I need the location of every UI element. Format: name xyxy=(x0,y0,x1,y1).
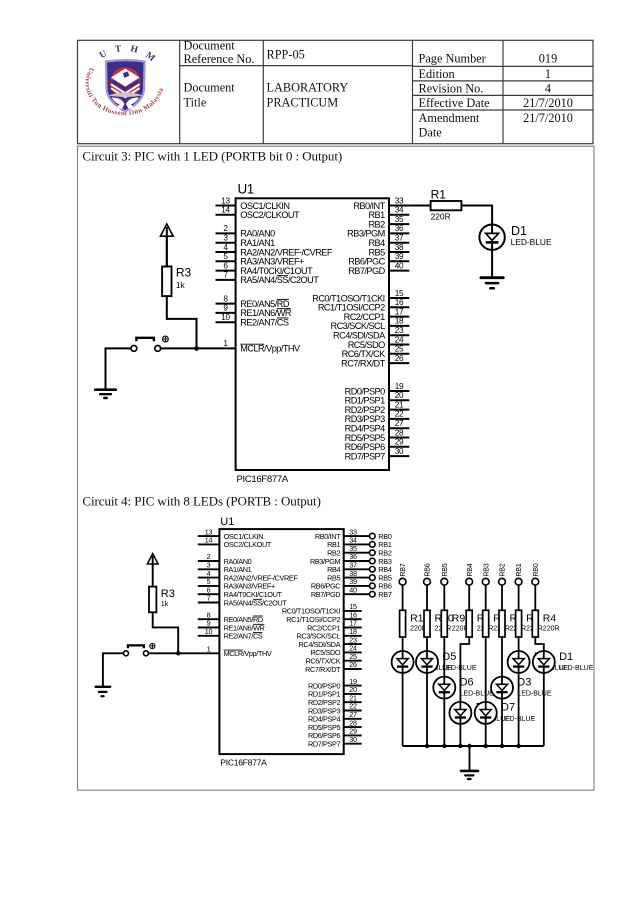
svg-text:RB0: RB0 xyxy=(531,563,540,576)
svg-text:40: 40 xyxy=(349,585,357,594)
wire R3 to MCLR node (circuit 4) xyxy=(153,612,179,653)
wire R10 to LED D5 xyxy=(426,637,428,651)
LED D6 (circuit 4) xyxy=(433,677,455,699)
wire RB7 terminal to resistor R11 xyxy=(402,585,404,610)
pin 22 RD3/PSP3 (U1 c3 right) xyxy=(345,410,410,425)
pin 26 RC7/RX/DT (U1 c4 right) xyxy=(305,660,362,674)
junction node on MCLR net (circuit 4) xyxy=(176,651,180,655)
header table frame xyxy=(78,40,594,143)
pin 10 RE2/AN7/CS (U1 c4 left) xyxy=(198,627,263,641)
pin 24 RC5/SDO (U1 c4 right) xyxy=(310,644,361,658)
svg-text:30: 30 xyxy=(349,735,357,744)
pin 20 RD1/PSP1 (U1 c3 right) xyxy=(345,391,410,406)
svg-text:R9: R9 xyxy=(452,612,466,624)
terminal RB6 (circuit 4 LED array) xyxy=(423,563,432,585)
svg-text:35: 35 xyxy=(395,215,404,224)
resistor R10 (circuit 4) xyxy=(424,610,430,637)
pin 30 RD7/PSP7 (U1 c4 right) xyxy=(308,735,362,749)
resistor R3 (circuit 4) xyxy=(149,587,156,613)
wire RB1 terminal to resistor R5 xyxy=(518,585,520,610)
wire R11 to LED D4 xyxy=(402,637,404,651)
wire VCC to resistor R3 (circuit 4) xyxy=(152,564,154,587)
terminal RB7 (circuit 4 LED array) xyxy=(398,563,407,585)
svg-text:Document: Document xyxy=(184,81,236,95)
UTHM logo xyxy=(83,44,165,117)
wire RB3 terminal to resistor R7 xyxy=(485,585,487,610)
svg-text:21: 21 xyxy=(395,400,404,409)
ground symbol (circuit 4 left) xyxy=(96,687,111,696)
pin 19 RD0/PSP0 (U1 c3 right) xyxy=(345,382,410,397)
wire LED D7 to ground rail xyxy=(485,724,487,746)
svg-text:1k: 1k xyxy=(176,280,186,290)
pin 27 RD4/PSP4 (U1 c4 right) xyxy=(308,710,362,724)
svg-text:RB1: RB1 xyxy=(514,563,523,576)
pin 24 RC5/SDO (U1 c3 right) xyxy=(348,335,410,350)
power VCC arrow (circuit 4) xyxy=(147,554,158,564)
svg-text:21/7/2010: 21/7/2010 xyxy=(523,96,573,110)
header table text xyxy=(184,38,573,139)
svg-text:RPP-05: RPP-05 xyxy=(267,48,305,62)
svg-text:RD7/PSP7: RD7/PSP7 xyxy=(308,740,341,749)
svg-text:019: 019 xyxy=(539,52,557,66)
wire RB0 terminal to resistor R4 xyxy=(534,585,536,610)
svg-text:R3: R3 xyxy=(176,266,192,280)
svg-text:PIC16F877A: PIC16F877A xyxy=(220,758,267,768)
svg-text:26: 26 xyxy=(395,354,404,363)
svg-text:4: 4 xyxy=(545,82,551,96)
pin 37 RB4 (U1 c3 right) xyxy=(368,234,409,249)
svg-text:19: 19 xyxy=(395,382,404,391)
IC U1 PIC16F877A body (circuit 4) xyxy=(219,529,343,754)
terminal RB4 (circuit 4 LED array) xyxy=(465,563,474,585)
svg-text:RB5: RB5 xyxy=(440,563,449,576)
wire R6 to LED D3 xyxy=(501,637,503,677)
pin 26 RC7/RX/DT (U1 c3 right) xyxy=(341,354,409,369)
pin 28 RD5/PSP5 (U1 c3 right) xyxy=(345,428,410,443)
pin 36 RB3/PGM (U1 c3 right) xyxy=(347,224,409,239)
LED D3 (circuit 4) xyxy=(491,677,513,699)
junction node on ground rail x=519 xyxy=(516,744,520,748)
wire R3 to MCLR node (circuit 3) xyxy=(167,296,197,348)
svg-text:LED-BLUE: LED-BLUE xyxy=(517,691,552,698)
LED D7 (circuit 4) xyxy=(475,702,497,724)
svg-text:RA5/AN4/SS/C2OUT: RA5/AN4/SS/C2OUT xyxy=(224,598,288,607)
resistor R8 (circuit 4) xyxy=(466,610,472,637)
svg-text:MCLR/Vpp/THV: MCLR/Vpp/THV xyxy=(240,344,301,354)
svg-text:39: 39 xyxy=(395,252,404,261)
svg-text:8: 8 xyxy=(223,294,228,303)
wire button to MCLR pin 1 (circuit 3) xyxy=(161,347,236,349)
pin 6 RA4/T0CKI/C1OUT (U1 c4 left) xyxy=(198,585,283,599)
wire R4 to LED D1 xyxy=(535,637,544,651)
svg-text:Amendment: Amendment xyxy=(419,111,480,125)
wire R8 to LED D8 xyxy=(460,637,469,702)
pin 8 RE0/AN5/RD (U1 c3 left) xyxy=(216,294,290,309)
resistor R3 (circuit 3) xyxy=(162,267,171,297)
wire LED D5 to ground rail xyxy=(426,673,428,746)
svg-text:RC7/RX/DT: RC7/RX/DT xyxy=(341,358,385,368)
svg-text:RE2/AN7/CS: RE2/AN7/CS xyxy=(224,632,263,641)
pin 3 RA1/AN1 (U1 c3 left) xyxy=(216,234,276,249)
svg-text:Document: Document xyxy=(184,38,236,52)
pin 6 RA4/T0CKI/C1OUT (U1 c3 left) xyxy=(216,261,314,276)
svg-text:27: 27 xyxy=(395,419,404,428)
pin 19 RD0/PSP0 (U1 c4 right) xyxy=(308,677,362,691)
pin 15 RC0/T1OSO/T1CKI (U1 c3 right) xyxy=(312,289,409,304)
junction node on ground rail x=460 xyxy=(458,744,462,748)
power VCC arrow (circuit 3) xyxy=(160,224,173,267)
pin 13 OSC1/CLKIN (U1 c4 left) xyxy=(198,527,263,541)
wire R5 to LED D2 xyxy=(518,637,520,651)
svg-text:PRACTICUM: PRACTICUM xyxy=(267,95,339,109)
ground rail (circuit 4) xyxy=(403,745,544,747)
wire VCC to resistor R3 (circuit 3) xyxy=(166,236,168,266)
svg-text:10: 10 xyxy=(205,627,213,636)
pin 33 RB0/INT (U1 c3 right) xyxy=(353,196,409,211)
svg-text:6: 6 xyxy=(223,261,228,270)
resistor R9 (circuit 4) xyxy=(441,610,447,637)
LED D1 (circuit 4) xyxy=(533,651,555,673)
svg-text:OSC2/CLKOUT: OSC2/CLKOUT xyxy=(224,540,272,549)
pin 10 RE2/AN7/CS (U1 c3 left) xyxy=(216,313,289,328)
svg-text:20: 20 xyxy=(395,391,404,400)
svg-text:RA5/AN4/SS/C2OUT: RA5/AN4/SS/C2OUT xyxy=(240,275,319,285)
ground symbol (circuit 3 left) xyxy=(95,390,116,398)
svg-text:23: 23 xyxy=(395,326,404,335)
svg-text:U1: U1 xyxy=(238,182,254,197)
wire R9 to LED D6 xyxy=(443,637,445,677)
wire button to MCLR pin 1 (circuit 4) xyxy=(148,652,219,654)
pin 2 RA0/AN0 (U1 c4 left) xyxy=(198,552,252,566)
svg-text:4: 4 xyxy=(223,243,228,252)
svg-text:40: 40 xyxy=(395,261,404,270)
svg-text:RB7: RB7 xyxy=(378,590,392,599)
svg-text:7: 7 xyxy=(207,594,211,603)
svg-text:24: 24 xyxy=(395,335,404,344)
svg-text:Circuit 3: PIC with 1 LED (POR: Circuit 3: PIC with 1 LED (PORTB bit 0 :… xyxy=(82,148,342,163)
pin 1 MCLR/Vpp/THV (U1 c3 left) xyxy=(223,339,301,354)
wire LED D1 to ground rail xyxy=(543,673,545,746)
pin 2 RA0/AN0 (U1 c3 left) xyxy=(216,224,276,239)
pin 15 RC0/T1OSO/T1CKI (U1 c4 right) xyxy=(282,602,362,616)
svg-text:5: 5 xyxy=(223,252,228,261)
wire button to ground (circuit 4) xyxy=(103,653,124,686)
junction node on MCLR net (circuit 3) xyxy=(194,346,199,351)
svg-text:22: 22 xyxy=(395,410,404,419)
pin 23 RC4/SDI/SDA (U1 c3 right) xyxy=(333,326,409,341)
pin 23 RC4/SDI/SDA (U1 c4 right) xyxy=(299,635,362,649)
svg-text:RC7/RX/DT: RC7/RX/DT xyxy=(305,665,341,674)
svg-text:34: 34 xyxy=(395,206,404,215)
resistor R11 (circuit 4) xyxy=(400,610,406,637)
svg-text:PIC16F877A: PIC16F877A xyxy=(237,474,289,485)
svg-text:RB2: RB2 xyxy=(498,563,507,576)
pin 9 RE1/AN6/WR (U1 c4 left) xyxy=(198,619,265,633)
svg-text:D6: D6 xyxy=(460,676,474,688)
pin 29 RD6/PSP6 (U1 c4 right) xyxy=(308,727,362,741)
pin 4 RA2/AN2/VREF-/CVREF (U1 c3 left) xyxy=(216,243,333,257)
svg-text:3: 3 xyxy=(223,234,228,243)
junction node on ground rail x=502 xyxy=(500,744,504,748)
svg-text:Effective Date: Effective Date xyxy=(419,96,491,110)
svg-text:18: 18 xyxy=(395,317,404,326)
svg-text:15: 15 xyxy=(395,289,404,298)
svg-text:13: 13 xyxy=(221,196,230,205)
svg-text:220R: 220R xyxy=(543,625,560,632)
pin 39 RB6/PGC with terminal RB6 (U1 c4 right) xyxy=(311,577,392,591)
svg-text:MCLR/Vpp/THV: MCLR/Vpp/THV xyxy=(224,649,272,658)
svg-text:RE2/AN7/CS: RE2/AN7/CS xyxy=(240,318,289,328)
terminal RB1 (circuit 4 LED array) xyxy=(514,563,523,585)
pin 21 RD2/PSP2 (U1 c4 right) xyxy=(308,693,362,707)
svg-text:30: 30 xyxy=(395,447,404,456)
pin 33 RB0/INT with terminal RB0 (U1 c4 right) xyxy=(315,527,392,541)
pin 40 RB7/PGD with terminal RB7 (U1 c4 right) xyxy=(311,585,392,599)
svg-text:1: 1 xyxy=(207,645,211,654)
svg-text:28: 28 xyxy=(395,428,404,437)
pin 16 RC1/T1OSI/CCP2 (U1 c4 right) xyxy=(286,610,361,624)
svg-text:21/7/2010: 21/7/2010 xyxy=(523,111,573,125)
pin 35 RB2 (U1 c3 right) xyxy=(368,215,409,230)
svg-text:25: 25 xyxy=(395,345,404,354)
pin 30 RD7/PSP7 (U1 c3 right) xyxy=(345,447,410,462)
pin 14 OSC2/CLKOUT (U1 c4 left) xyxy=(198,536,272,550)
IC U1 PIC16F877A body (circuit 3) xyxy=(236,198,389,470)
svg-text:14: 14 xyxy=(221,206,230,215)
junction node on ground rail x=427 xyxy=(425,744,429,748)
svg-text:D1: D1 xyxy=(559,651,573,663)
svg-text:7: 7 xyxy=(223,271,228,280)
svg-text:RB6: RB6 xyxy=(423,563,432,576)
svg-text:Date: Date xyxy=(419,126,443,140)
pin 38 RB5 with terminal RB5 (U1 c4 right) xyxy=(327,569,392,583)
terminal RB2 (circuit 4 LED array) xyxy=(498,563,507,585)
pin 38 RB5 (U1 c3 right) xyxy=(368,243,409,257)
wire RB0 pin 33 to R1 to LED D1 (circuit 3) xyxy=(409,206,492,278)
wire RB6 terminal to resistor R10 xyxy=(426,585,428,610)
resistor R1 (circuit 3) xyxy=(431,201,462,210)
pin 1 MCLR/Vpp/THV (U1 c4 left) xyxy=(207,645,272,659)
svg-text:U1: U1 xyxy=(220,516,234,528)
svg-text:1: 1 xyxy=(545,67,551,81)
resistor R5 (circuit 4) xyxy=(516,610,522,637)
pin 36 RB3/PGM with terminal RB3 (U1 c4 right) xyxy=(310,552,392,566)
wire R7 to LED D7 xyxy=(485,637,487,702)
svg-text:16: 16 xyxy=(395,298,404,307)
pin 22 RD3/PSP3 (U1 c4 right) xyxy=(308,702,362,716)
pin 16 RC1/T1OSI/CCP2 (U1 c3 right) xyxy=(318,298,409,313)
pin 14 OSC2/CLKOUT (U1 c3 left) xyxy=(216,206,301,221)
pin 18 RC3/SCK/SCL (U1 c3 right) xyxy=(330,317,409,332)
wire RB2 terminal to resistor R6 xyxy=(501,585,503,610)
svg-text:1: 1 xyxy=(223,339,228,348)
junction node on ground rail x=486 xyxy=(484,744,488,748)
svg-text:26: 26 xyxy=(349,660,357,669)
pin 21 RD2/PSP2 (U1 c3 right) xyxy=(345,400,410,415)
svg-text:RB4: RB4 xyxy=(465,563,474,576)
wire RB4 terminal to resistor R8 xyxy=(468,585,470,610)
wire RB5 terminal to resistor R9 xyxy=(443,585,445,610)
pin 7 RA5/AN4/SS/C2OUT (U1 c4 left) xyxy=(198,594,288,608)
pin 18 RC3/SCK/SCL (U1 c4 right) xyxy=(297,627,362,641)
pin 35 RB2 with terminal RB2 (U1 c4 right) xyxy=(327,544,392,558)
svg-text:Revision No.: Revision No. xyxy=(419,82,484,96)
pin 3 RA1/AN1 (U1 c4 left) xyxy=(198,561,252,575)
svg-text:Reference No.: Reference No. xyxy=(184,52,255,66)
pin 17 RC2/CCP1 (U1 c4 right) xyxy=(307,619,362,633)
svg-text:R1: R1 xyxy=(431,187,447,201)
pin 25 RC6/TX/CK (U1 c4 right) xyxy=(305,652,361,666)
svg-text:Title: Title xyxy=(184,95,207,109)
svg-text:36: 36 xyxy=(395,224,404,233)
junction node on ground rail x=444 xyxy=(442,744,446,748)
svg-text:10: 10 xyxy=(221,313,230,322)
terminal RB3 (circuit 4 LED array) xyxy=(481,563,490,585)
svg-text:2: 2 xyxy=(223,224,228,233)
svg-text:29: 29 xyxy=(395,438,404,447)
svg-text:LED-BLUE: LED-BLUE xyxy=(559,665,594,672)
ground symbol (circuit 3 right) xyxy=(481,278,503,289)
pin 34 RB1 with terminal RB1 (U1 c4 right) xyxy=(327,536,392,550)
svg-text:33: 33 xyxy=(395,196,404,205)
resistor R4 (circuit 4) xyxy=(532,610,538,637)
pin 37 RB4 with terminal RB4 (U1 c4 right) xyxy=(327,561,392,575)
LED D4 (circuit 4) xyxy=(392,651,414,673)
pin 25 RC6/TX/CK (U1 c3 right) xyxy=(342,345,410,360)
content box frame xyxy=(78,146,595,790)
svg-text:RB7/PGD: RB7/PGD xyxy=(311,590,340,599)
pin 9 RE1/AN6/WR (U1 c3 left) xyxy=(216,304,292,319)
svg-text:37: 37 xyxy=(395,234,404,243)
LED D1 (circuit 3) xyxy=(479,225,504,250)
resistor R7 (circuit 4) xyxy=(483,610,489,637)
resistor R6 (circuit 4) xyxy=(499,610,505,637)
svg-text:LED-BLUE: LED-BLUE xyxy=(511,237,552,247)
pin 5 RA3/AN3/VREF+ (U1 c4 left) xyxy=(198,577,275,591)
terminal RB5 (circuit 4 LED array) xyxy=(440,563,449,585)
svg-text:RD7/PSP7: RD7/PSP7 xyxy=(345,451,385,461)
pin 34 RB1 (U1 c3 right) xyxy=(368,206,409,221)
svg-text:14: 14 xyxy=(205,536,213,545)
pin 7 RA5/AN4/SS/C2OUT (U1 c3 left) xyxy=(216,271,320,286)
svg-text:RB3: RB3 xyxy=(481,563,490,576)
svg-text:D7: D7 xyxy=(501,702,515,714)
pin 5 RA3/AN3/VREF+ (U1 c3 left) xyxy=(216,252,305,267)
wire LED D2 to ground rail xyxy=(518,673,520,746)
pin 8 RE0/AN5/RD (U1 c4 left) xyxy=(198,610,263,624)
svg-text:9: 9 xyxy=(223,304,228,313)
wire LED D3 to ground rail xyxy=(501,699,503,746)
wire button to ground (circuit 3) xyxy=(106,348,132,389)
pin 27 RD4/PSP4 (U1 c3 right) xyxy=(345,419,410,434)
svg-text:220R: 220R xyxy=(431,212,451,222)
pin 29 RD6/PSP6 (U1 c3 right) xyxy=(345,438,410,453)
junction node on ground rail x=470 xyxy=(467,744,471,748)
svg-text:LABORATORY: LABORATORY xyxy=(267,81,349,95)
pin 17 RC2/CCP1 (U1 c3 right) xyxy=(344,307,410,322)
svg-text:Page Number: Page Number xyxy=(419,52,486,66)
pin 20 RD1/PSP1 (U1 c4 right) xyxy=(308,685,362,699)
pin 4 RA2/AN2/VREF-/CVREF (U1 c4 left) xyxy=(198,569,299,583)
svg-text:LED-BLUE: LED-BLUE xyxy=(460,691,495,698)
svg-text:17: 17 xyxy=(395,307,404,316)
LED D5 (circuit 4) xyxy=(416,651,438,673)
LED D2 (circuit 4) xyxy=(508,651,530,673)
pin 28 RD5/PSP5 (U1 c4 right) xyxy=(308,718,362,732)
svg-text:1k: 1k xyxy=(161,599,169,608)
svg-text:38: 38 xyxy=(395,243,404,252)
pushbutton switch (circuit 4) xyxy=(124,643,155,655)
pin 13 OSC1/CLKIN (U1 c3 left) xyxy=(216,196,290,211)
ground symbol (circuit 4 right) xyxy=(461,771,478,779)
wire LED D4 to ground rail xyxy=(402,673,404,746)
pin 39 RB6/PGC (U1 c3 right) xyxy=(348,252,409,267)
svg-text:RB7: RB7 xyxy=(398,563,407,576)
wire rail to ground symbol (circuit 4) xyxy=(469,746,471,770)
terminal RB0 (circuit 4 LED array) xyxy=(531,563,540,585)
LED D8 (circuit 4) xyxy=(449,702,471,724)
svg-text:Circuit 4: PIC with 8 LEDs (PO: Circuit 4: PIC with 8 LEDs (PORTB : Outp… xyxy=(82,494,320,509)
svg-text:R4: R4 xyxy=(543,612,557,624)
svg-text:Edition: Edition xyxy=(419,67,455,81)
svg-text:D1: D1 xyxy=(511,224,527,238)
wire LED D6 to ground rail xyxy=(443,699,445,746)
pushbutton switch (circuit 3) xyxy=(131,336,168,351)
svg-text:RB7/PGD: RB7/PGD xyxy=(348,266,385,276)
pin 40 RB7/PGD (U1 c3 right) xyxy=(348,261,409,276)
svg-text:OSC2/CLKOUT: OSC2/CLKOUT xyxy=(240,210,300,220)
wire LED D8 to ground rail xyxy=(459,724,461,746)
